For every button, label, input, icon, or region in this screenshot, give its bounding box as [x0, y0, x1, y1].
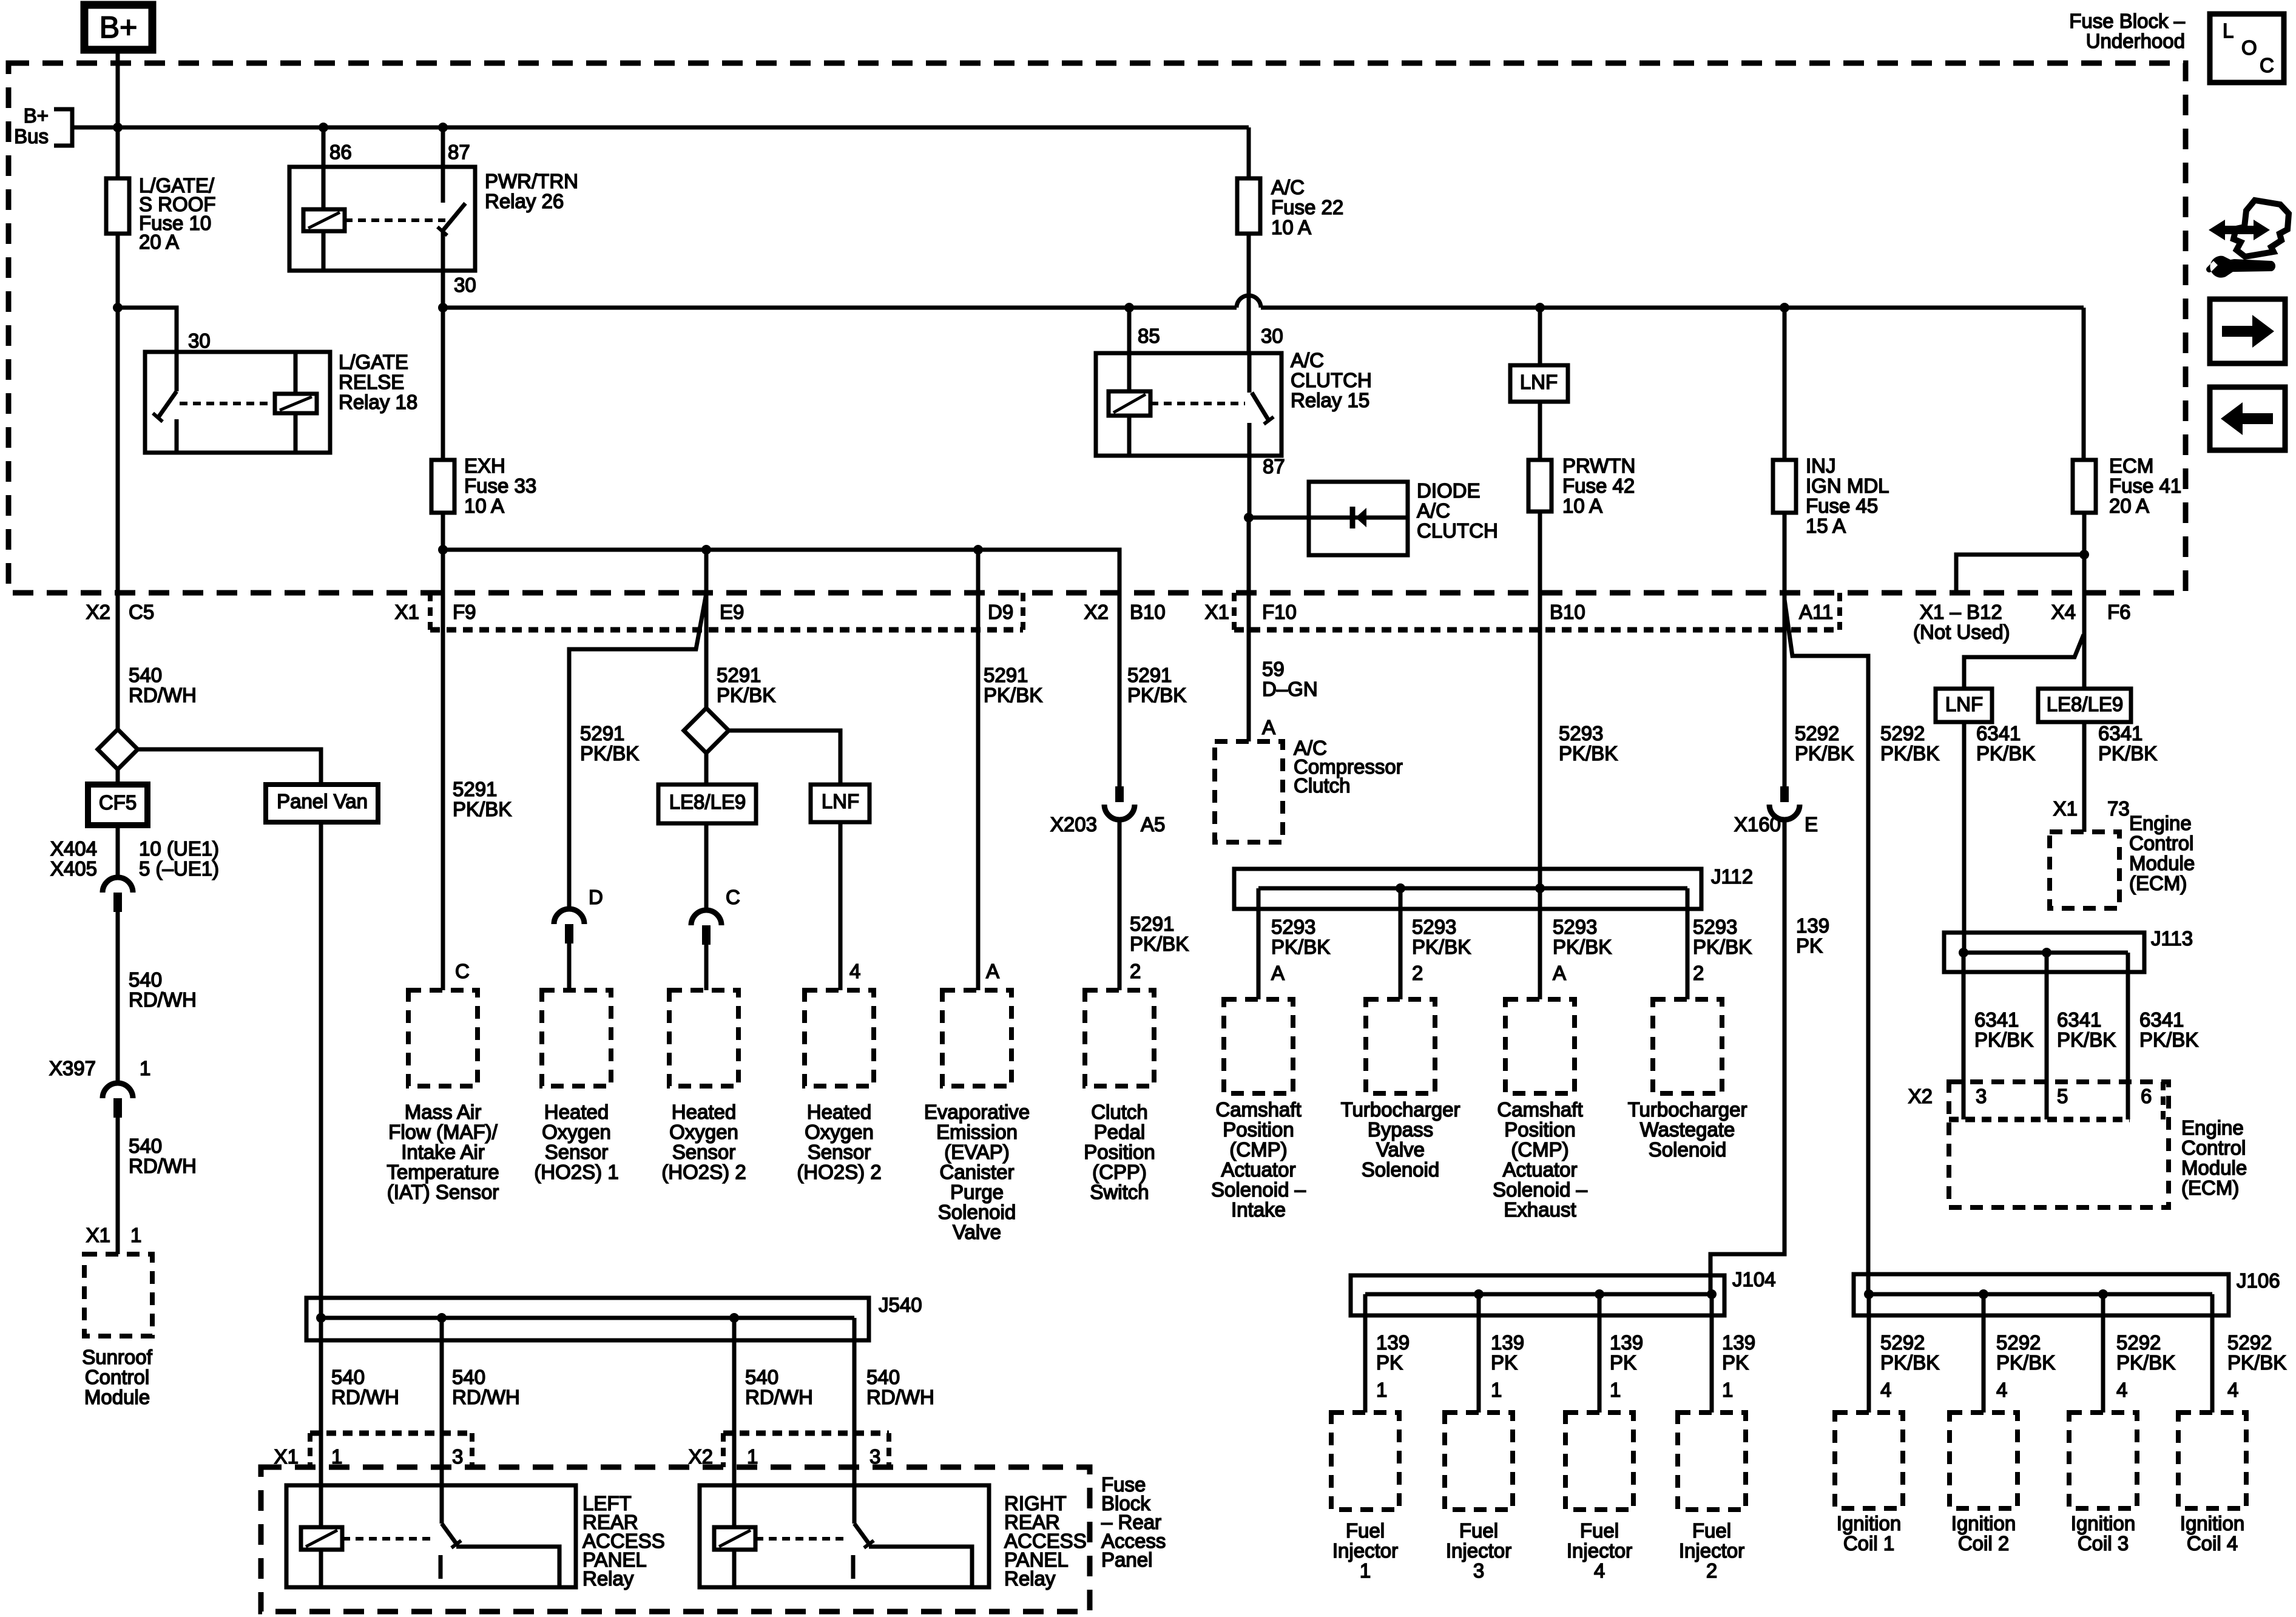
svg-text:Engine: Engine: [2181, 1116, 2244, 1139]
X1-B12 not used stub wire: [1956, 555, 2084, 593]
relay26 switch pin87 stub: [441, 167, 445, 203]
junction B+ bus / L-GATE fuse wire: [113, 123, 123, 132]
svg-text:5293: 5293: [1693, 916, 1737, 938]
svg-text:1: 1: [140, 1057, 150, 1079]
svg-text:5291: 5291: [984, 664, 1028, 686]
svg-text:X405: X405: [50, 857, 97, 880]
relay26 coil: [303, 209, 345, 231]
svg-text:PK/BK: PK/BK: [453, 798, 512, 820]
junction 30 bus / LNF-PRWTN wire: [1535, 303, 1545, 312]
svg-text:J113: J113: [2151, 927, 2193, 950]
svg-text:Bypass: Bypass: [1368, 1118, 1433, 1141]
svg-text:Wastegate: Wastegate: [1640, 1118, 1735, 1141]
diode internal wire: [1309, 516, 1408, 520]
svg-text:PK/BK: PK/BK: [1130, 933, 1189, 955]
svg-text:Relay 18: Relay 18: [339, 391, 417, 413]
svg-text:10 (UE1): 10 (UE1): [139, 837, 219, 860]
svg-text:ECM: ECM: [2109, 454, 2153, 477]
relay18 coil: [275, 394, 317, 413]
forward arrow box: [2210, 299, 2285, 363]
svg-text:Module: Module: [2129, 852, 2195, 874]
svg-text:X2: X2: [689, 1445, 713, 1468]
svg-text:5293: 5293: [1271, 916, 1315, 938]
svg-text:INJ: INJ: [1806, 454, 1836, 477]
junction pin87 / diode wire: [1244, 513, 1254, 522]
svg-text:Control: Control: [85, 1366, 149, 1388]
svg-text:PRWTN: PRWTN: [1562, 454, 1635, 477]
relay26 switch lower stub: [441, 231, 445, 271]
CF5 box: [88, 785, 147, 825]
svg-text:Turbocharger: Turbocharger: [1341, 1098, 1460, 1121]
wire LNF box to PRWTN fuse: [1538, 402, 1542, 460]
svg-text:PK/BK: PK/BK: [1412, 936, 1471, 958]
svg-text:Sunroof: Sunroof: [82, 1346, 152, 1368]
svg-text:Module: Module: [84, 1386, 150, 1408]
LNF engine code box 3: [1936, 689, 1992, 722]
svg-text:1: 1: [1360, 1559, 1371, 1582]
svg-text:5291: 5291: [580, 722, 624, 744]
svg-text:Canister: Canister: [940, 1161, 1015, 1183]
svg-text:139: 139: [1610, 1331, 1643, 1354]
svg-text:1: 1: [1610, 1379, 1621, 1401]
svg-text:Relay 26: Relay 26: [485, 190, 564, 212]
svg-text:540: 540: [129, 1135, 162, 1157]
svg-text:RD/WH: RD/WH: [331, 1386, 399, 1408]
svg-text:(CMP): (CMP): [1511, 1138, 1568, 1161]
left relay switch: [440, 1485, 444, 1524]
svg-text:(HO2S) 2: (HO2S) 2: [661, 1161, 746, 1183]
svg-text:A: A: [1553, 962, 1566, 984]
svg-text:59: 59: [1262, 658, 1285, 680]
svg-text:2: 2: [1412, 962, 1423, 984]
svg-text:C5: C5: [129, 601, 154, 623]
svg-text:PK/BK: PK/BK: [1880, 742, 1939, 765]
svg-text:15 A: 15 A: [1806, 515, 1846, 537]
inline connector X404/X405: [103, 877, 133, 893]
wire ECM junction down through connector F6: [2082, 555, 2087, 635]
relay PWR/TRN Relay 26 box: [289, 167, 475, 271]
svg-text:PK: PK: [1376, 1351, 1403, 1374]
fuse A/C Fuse 22: [1237, 178, 1260, 234]
svg-text:2: 2: [1706, 1559, 1717, 1582]
inline connector X203-A5: [1115, 786, 1124, 802]
svg-text:(ECM): (ECM): [2181, 1176, 2239, 1199]
svg-text:(HO2S) 2: (HO2S) 2: [797, 1161, 881, 1183]
fuse EXH Fuse 33 wire from 30 bus: [441, 308, 445, 460]
wire relay18 feed: [118, 308, 177, 352]
relay18 switch lower stub: [175, 419, 179, 453]
fuse ECM Fuse 41: [2073, 460, 2096, 513]
svg-text:Coil 4: Coil 4: [2187, 1532, 2238, 1555]
J112 drop to turbo wastegate: [1686, 888, 1690, 999]
svg-text:A/C: A/C: [1417, 499, 1450, 522]
relay15 coil: [1109, 391, 1150, 416]
svg-text:PK/BK: PK/BK: [1880, 1351, 1939, 1374]
svg-text:139: 139: [1376, 1331, 1410, 1354]
svg-text:Heated: Heated: [544, 1101, 609, 1123]
svg-text:B+: B+: [100, 10, 138, 44]
relay15 coil-switch dashed link: [1150, 402, 1245, 405]
svg-text:4: 4: [2227, 1379, 2238, 1401]
LNF engine code box 2: [811, 785, 869, 822]
svg-text:X4: X4: [2051, 601, 2076, 623]
junction 30 bus / A-C relay pin85: [1124, 303, 1134, 312]
svg-text:DIODE: DIODE: [1417, 479, 1481, 502]
svg-text:Pedal: Pedal: [1094, 1121, 1145, 1143]
ignition coil dashed boxes: [1835, 1413, 1903, 1508]
left relay coil: [301, 1527, 342, 1550]
svg-text:4: 4: [849, 960, 860, 982]
svg-text:D9: D9: [988, 601, 1013, 623]
wire LNF box to HO2S2-2 box: [839, 822, 843, 990]
junction B+ bus / relay26 pin87: [438, 123, 448, 132]
svg-text:Ignition: Ignition: [1951, 1512, 2016, 1534]
right rear access panel relay box: [700, 1485, 989, 1587]
left rear access panel relay box: [286, 1485, 576, 1587]
svg-text:5293: 5293: [1553, 916, 1597, 938]
svg-text:Solenoid –: Solenoid –: [1211, 1178, 1306, 1201]
B10 wire down through X203 to CPP switch: [1118, 785, 1122, 789]
relay18 coil stubs: [294, 352, 298, 394]
svg-text:Mass Air: Mass Air: [405, 1101, 482, 1123]
svg-text:E9: E9: [720, 601, 744, 623]
wire bus to A/C fuse 22: [1247, 127, 1251, 178]
svg-text:F6: F6: [2107, 601, 2131, 623]
svg-text:(Not Used): (Not Used): [1913, 621, 2010, 643]
wire relay26 pin30 down to 30 bus: [441, 271, 445, 308]
svg-text:A: A: [1271, 962, 1285, 984]
diode symbol: [1350, 507, 1356, 528]
wire A/C fuse to relay15 pin30: [1247, 234, 1251, 353]
svg-text:PK/BK: PK/BK: [1976, 742, 2035, 765]
J113 drop pin3: [1962, 953, 1966, 1119]
svg-text:6341: 6341: [2057, 1008, 2101, 1031]
relay18 switch pin stub: [175, 352, 179, 391]
svg-text:2: 2: [1130, 960, 1141, 982]
wire from B+ terminal down to B+ bus: [116, 50, 120, 127]
svg-text:LNF: LNF: [822, 790, 859, 812]
svg-text:1: 1: [1376, 1379, 1387, 1401]
svg-text:PK/BK: PK/BK: [1127, 684, 1186, 706]
svg-text:86: 86: [329, 141, 352, 163]
svg-text:30: 30: [454, 274, 476, 296]
wire LNF box to J113: [1962, 722, 1967, 953]
svg-text:D: D: [589, 886, 603, 908]
svg-text:6341: 6341: [2139, 1008, 2184, 1031]
svg-text:30: 30: [188, 329, 211, 352]
svg-text:540: 540: [129, 664, 162, 686]
junction bar J104: [1351, 1275, 1724, 1315]
svg-text:X1: X1: [1205, 601, 1229, 623]
svg-text:5292: 5292: [1880, 1331, 1925, 1354]
svg-text:PK/BK: PK/BK: [2116, 1351, 2175, 1374]
svg-text:20 A: 20 A: [139, 231, 179, 253]
wire junction down to connector C5: [116, 308, 120, 730]
svg-text:Exhaust: Exhaust: [1504, 1198, 1576, 1221]
svg-text:139: 139: [1491, 1331, 1524, 1354]
svg-text:Purge: Purge: [950, 1181, 1004, 1203]
svg-text:Coil 3: Coil 3: [2078, 1532, 2129, 1555]
svg-text:87: 87: [1263, 455, 1285, 478]
svg-text:PK/BK: PK/BK: [984, 684, 1042, 706]
svg-text:4: 4: [1594, 1559, 1605, 1582]
svg-text:PK/BK: PK/BK: [1553, 936, 1612, 958]
svg-text:LNF: LNF: [1945, 693, 1983, 715]
svg-text:Switch: Switch: [1090, 1181, 1149, 1203]
svg-text:Fuse 41: Fuse 41: [2109, 474, 2181, 497]
svg-text:Valve: Valve: [1376, 1138, 1425, 1161]
svg-text:Oxygen: Oxygen: [805, 1121, 874, 1143]
svg-text:PK: PK: [1796, 934, 1823, 957]
svg-text:Flow (MAF)/: Flow (MAF)/: [388, 1121, 498, 1143]
wire Panel Van down to J540: [319, 822, 323, 1318]
svg-text:3: 3: [1473, 1559, 1484, 1582]
svg-text:(CMP): (CMP): [1229, 1138, 1287, 1161]
junction bar J113: [1944, 933, 2144, 972]
back arrow box: [2210, 387, 2285, 450]
inline connector C of HO2S2: [691, 910, 721, 925]
svg-text:J106: J106: [2237, 1269, 2280, 1292]
junction feed bus / D9 wire: [973, 545, 983, 555]
svg-text:X1: X1: [395, 601, 419, 623]
svg-text:5291: 5291: [1130, 913, 1174, 935]
relay L/GATE RELSE Relay 18 box: [145, 352, 330, 453]
svg-text:Fuse Block –: Fuse Block –: [2069, 10, 2185, 32]
svg-text:PK/BK: PK/BK: [580, 742, 639, 765]
svg-text:PK/BK: PK/BK: [2139, 1028, 2198, 1051]
svg-text:Fuel: Fuel: [1580, 1519, 1619, 1542]
relay15 switch pin30 stub: [1248, 353, 1252, 393]
svg-text:IGN MDL: IGN MDL: [1806, 474, 1889, 497]
svg-text:Injector: Injector: [1679, 1539, 1744, 1562]
svg-text:Module: Module: [2181, 1156, 2247, 1179]
junction bar J112: [1234, 869, 1701, 909]
svg-text:Clutch: Clutch: [1294, 774, 1351, 797]
svg-text:5292: 5292: [1996, 1331, 2041, 1354]
svg-text:30: 30: [1261, 325, 1283, 347]
E9 slant branch to HO2S1: [569, 593, 706, 909]
fuse L/GATE S ROOF Fuse 10: [106, 178, 129, 234]
wire connector D to HO2S1 box: [567, 944, 572, 990]
wire EXH junction down to connector F9 and MAF sensor: [441, 550, 445, 990]
svg-text:RD/WH: RD/WH: [129, 684, 197, 706]
D9 wire down to EVAP: [976, 550, 981, 990]
ECM dashed box: [1949, 1082, 2169, 1207]
svg-text:E: E: [1805, 813, 1818, 836]
svg-text:1: 1: [331, 1445, 342, 1468]
svg-text:Sensor: Sensor: [672, 1141, 736, 1163]
J112 drop to CMP intake: [1257, 888, 1261, 999]
svg-text:Valve: Valve: [953, 1221, 1001, 1243]
svg-text:5292: 5292: [2116, 1331, 2161, 1354]
J112 drop to turbo bypass: [1399, 888, 1403, 999]
svg-text:73: 73: [2107, 797, 2130, 820]
svg-text:Intake: Intake: [1231, 1198, 1286, 1221]
relay15 switch arm: [1252, 393, 1269, 420]
svg-text:Position: Position: [1084, 1141, 1155, 1163]
svg-text:Ignition: Ignition: [1837, 1512, 1901, 1534]
svg-text:Clutch: Clutch: [1091, 1101, 1148, 1123]
svg-text:Camshaft: Camshaft: [1497, 1098, 1582, 1121]
B+ bus wire: [72, 126, 1249, 130]
wire junction to diode box: [1249, 516, 1309, 520]
sensor dashed boxes row1: [408, 990, 478, 1086]
svg-text:(IAT) Sensor: (IAT) Sensor: [387, 1181, 499, 1203]
fuse block underhood dashed border: [8, 63, 2186, 593]
svg-text:Fuel: Fuel: [1692, 1519, 1731, 1542]
wire LE8/LE9 to ECM X1-73: [2082, 722, 2087, 832]
relay18 switch arm: [158, 391, 177, 418]
LNF engine code box: [1510, 365, 1568, 402]
A11 branch slant and wire to J106: [1784, 599, 1868, 1294]
vehicle service icon: [2234, 200, 2289, 257]
svg-text:CF5: CF5: [99, 791, 137, 814]
svg-text:540: 540: [866, 1366, 900, 1388]
J113 drop pin5: [2045, 953, 2049, 1119]
svg-text:Evaporative: Evaporative: [924, 1101, 1030, 1123]
svg-text:10 A: 10 A: [1562, 495, 1602, 517]
wire PRWTN fuse down to J112: [1538, 511, 1542, 888]
svg-text:Oxygen: Oxygen: [669, 1121, 738, 1143]
E9 wire through connector: [704, 550, 709, 708]
junction L/GATE wire / relay18 feed: [113, 303, 123, 312]
svg-text:6341: 6341: [1974, 1008, 2019, 1031]
svg-text:X1: X1: [86, 1224, 110, 1246]
wire ECM fuse to junction: [2082, 513, 2087, 555]
diode A/C clutch box: [1309, 482, 1408, 555]
svg-text:5 (–UE1): 5 (–UE1): [139, 857, 219, 880]
svg-text:C: C: [455, 960, 470, 982]
svg-text:3: 3: [452, 1445, 463, 1468]
junction ECM wire / X1-B12 stub: [2079, 550, 2089, 559]
svg-text:X2: X2: [86, 601, 110, 623]
wire CF5 to connector X404: [116, 825, 120, 877]
svg-text:Coil 1: Coil 1: [1843, 1532, 1894, 1555]
svg-text:RD/WH: RD/WH: [745, 1386, 813, 1408]
svg-text:Heated: Heated: [672, 1101, 736, 1123]
svg-text:Turbocharger: Turbocharger: [1628, 1098, 1747, 1121]
svg-text:540: 540: [745, 1366, 778, 1388]
svg-text:Panel Van: Panel Van: [277, 790, 368, 812]
svg-text:X404: X404: [50, 837, 97, 860]
svg-text:87: 87: [448, 141, 470, 163]
relay15 switch lower stub: [1248, 423, 1252, 456]
svg-text:PK/BK: PK/BK: [2098, 742, 2157, 765]
svg-text:PK/BK: PK/BK: [2057, 1028, 2116, 1051]
J113 drop pin6: [2126, 953, 2130, 1119]
relay A/C CLUTCH Relay 15 box: [1096, 353, 1281, 456]
svg-text:Fuel: Fuel: [1459, 1519, 1498, 1542]
junction 30 bus / INJ fuse wire: [1780, 303, 1789, 312]
svg-text:Sensor: Sensor: [808, 1141, 871, 1163]
wire bus to relay26 pin87: [441, 127, 445, 167]
sunroof control module dashed box: [84, 1254, 152, 1336]
wire diamond to CF5: [116, 769, 120, 785]
inline connector X160-E: [1780, 786, 1789, 802]
ECM X1 dashed box: [2050, 832, 2119, 908]
svg-text:5: 5: [2057, 1085, 2068, 1107]
svg-text:Actuator: Actuator: [1503, 1158, 1578, 1181]
svg-text:Control: Control: [2181, 1136, 2246, 1159]
junction 30 bus / EXH fuse wire: [438, 303, 448, 312]
svg-text:Sensor: Sensor: [545, 1141, 609, 1163]
B+ power terminal: [84, 5, 152, 50]
relay18 coil-switch dashed link: [180, 402, 275, 405]
svg-text:2: 2: [1693, 962, 1704, 984]
svg-text:3: 3: [1976, 1085, 1987, 1107]
svg-text:X2: X2: [1084, 601, 1109, 623]
rear relay connector X1 dotted row: [310, 1431, 472, 1436]
wire 30bus to LNF box: [1538, 308, 1542, 365]
svg-text:Solenoid: Solenoid: [1362, 1158, 1439, 1181]
svg-text:(CPP): (CPP): [1092, 1161, 1147, 1183]
svg-text:Relay: Relay: [1004, 1567, 1056, 1590]
svg-text:CLUTCH: CLUTCH: [1417, 519, 1498, 542]
svg-text:F10: F10: [1262, 601, 1297, 623]
svg-text:4: 4: [1996, 1379, 2007, 1401]
B+ bus bracket: [54, 109, 72, 146]
svg-text:4: 4: [1880, 1379, 1891, 1401]
svg-text:B10: B10: [1550, 601, 1585, 623]
svg-text:PK/BK: PK/BK: [1996, 1351, 2055, 1374]
wire 30bus to relay15 pin85: [1127, 308, 1132, 353]
svg-text:540: 540: [331, 1366, 365, 1388]
svg-text:5293: 5293: [1412, 916, 1456, 938]
svg-text:(EVAP): (EVAP): [944, 1141, 1010, 1163]
svg-text:Oxygen: Oxygen: [542, 1121, 611, 1143]
relay15 coil stubs: [1127, 353, 1132, 391]
wire connector C to HO2S2 box: [704, 945, 709, 990]
svg-text:6: 6: [2141, 1085, 2152, 1107]
svg-text:Fuel: Fuel: [1346, 1519, 1385, 1542]
svg-text:A5: A5: [1141, 813, 1165, 836]
svg-text:5292: 5292: [1880, 722, 1925, 744]
svg-text:Bus: Bus: [14, 125, 49, 147]
junction bar J540: [306, 1298, 869, 1340]
svg-text:L/GATE: L/GATE: [339, 351, 408, 373]
svg-text:RD/WH: RD/WH: [129, 988, 197, 1011]
svg-text:CLUTCH: CLUTCH: [1291, 369, 1372, 391]
connector X1 dotted row right segment: [1234, 627, 1840, 633]
wire to X397: [116, 912, 120, 1083]
svg-text:J104: J104: [1732, 1268, 1776, 1291]
wire to sunroof module: [116, 1118, 120, 1254]
svg-text:Fuse 42: Fuse 42: [1562, 474, 1635, 497]
relay26 coil-switch dashed link: [345, 218, 445, 222]
svg-text:5291: 5291: [1127, 664, 1172, 686]
svg-text:RD/WH: RD/WH: [129, 1155, 197, 1177]
svg-text:PK/BK: PK/BK: [1693, 936, 1752, 958]
svg-text:O: O: [2241, 36, 2257, 59]
svg-text:Emission: Emission: [936, 1121, 1018, 1143]
svg-text:Temperature: Temperature: [387, 1161, 499, 1183]
junction bar J106: [1854, 1274, 2229, 1315]
svg-text:X1 – B12: X1 – B12: [1920, 601, 2002, 623]
svg-text:1: 1: [1491, 1379, 1502, 1401]
svg-text:X160: X160: [1734, 813, 1781, 836]
svg-text:A/C: A/C: [1271, 176, 1305, 198]
svg-text:A11: A11: [1799, 601, 1833, 623]
svg-text:C: C: [726, 886, 740, 908]
svg-text:5292: 5292: [1795, 722, 1839, 744]
svg-text:D–GN: D–GN: [1262, 678, 1318, 700]
fuse block rear access panel dashed border: [261, 1467, 1090, 1612]
svg-text:4: 4: [2116, 1379, 2127, 1401]
svg-text:Control: Control: [2129, 832, 2193, 854]
svg-text:Intake Air: Intake Air: [401, 1141, 485, 1163]
rear relay connector X2 dotted row: [723, 1431, 889, 1436]
svg-text:LE8/LE9: LE8/LE9: [2047, 693, 2124, 715]
